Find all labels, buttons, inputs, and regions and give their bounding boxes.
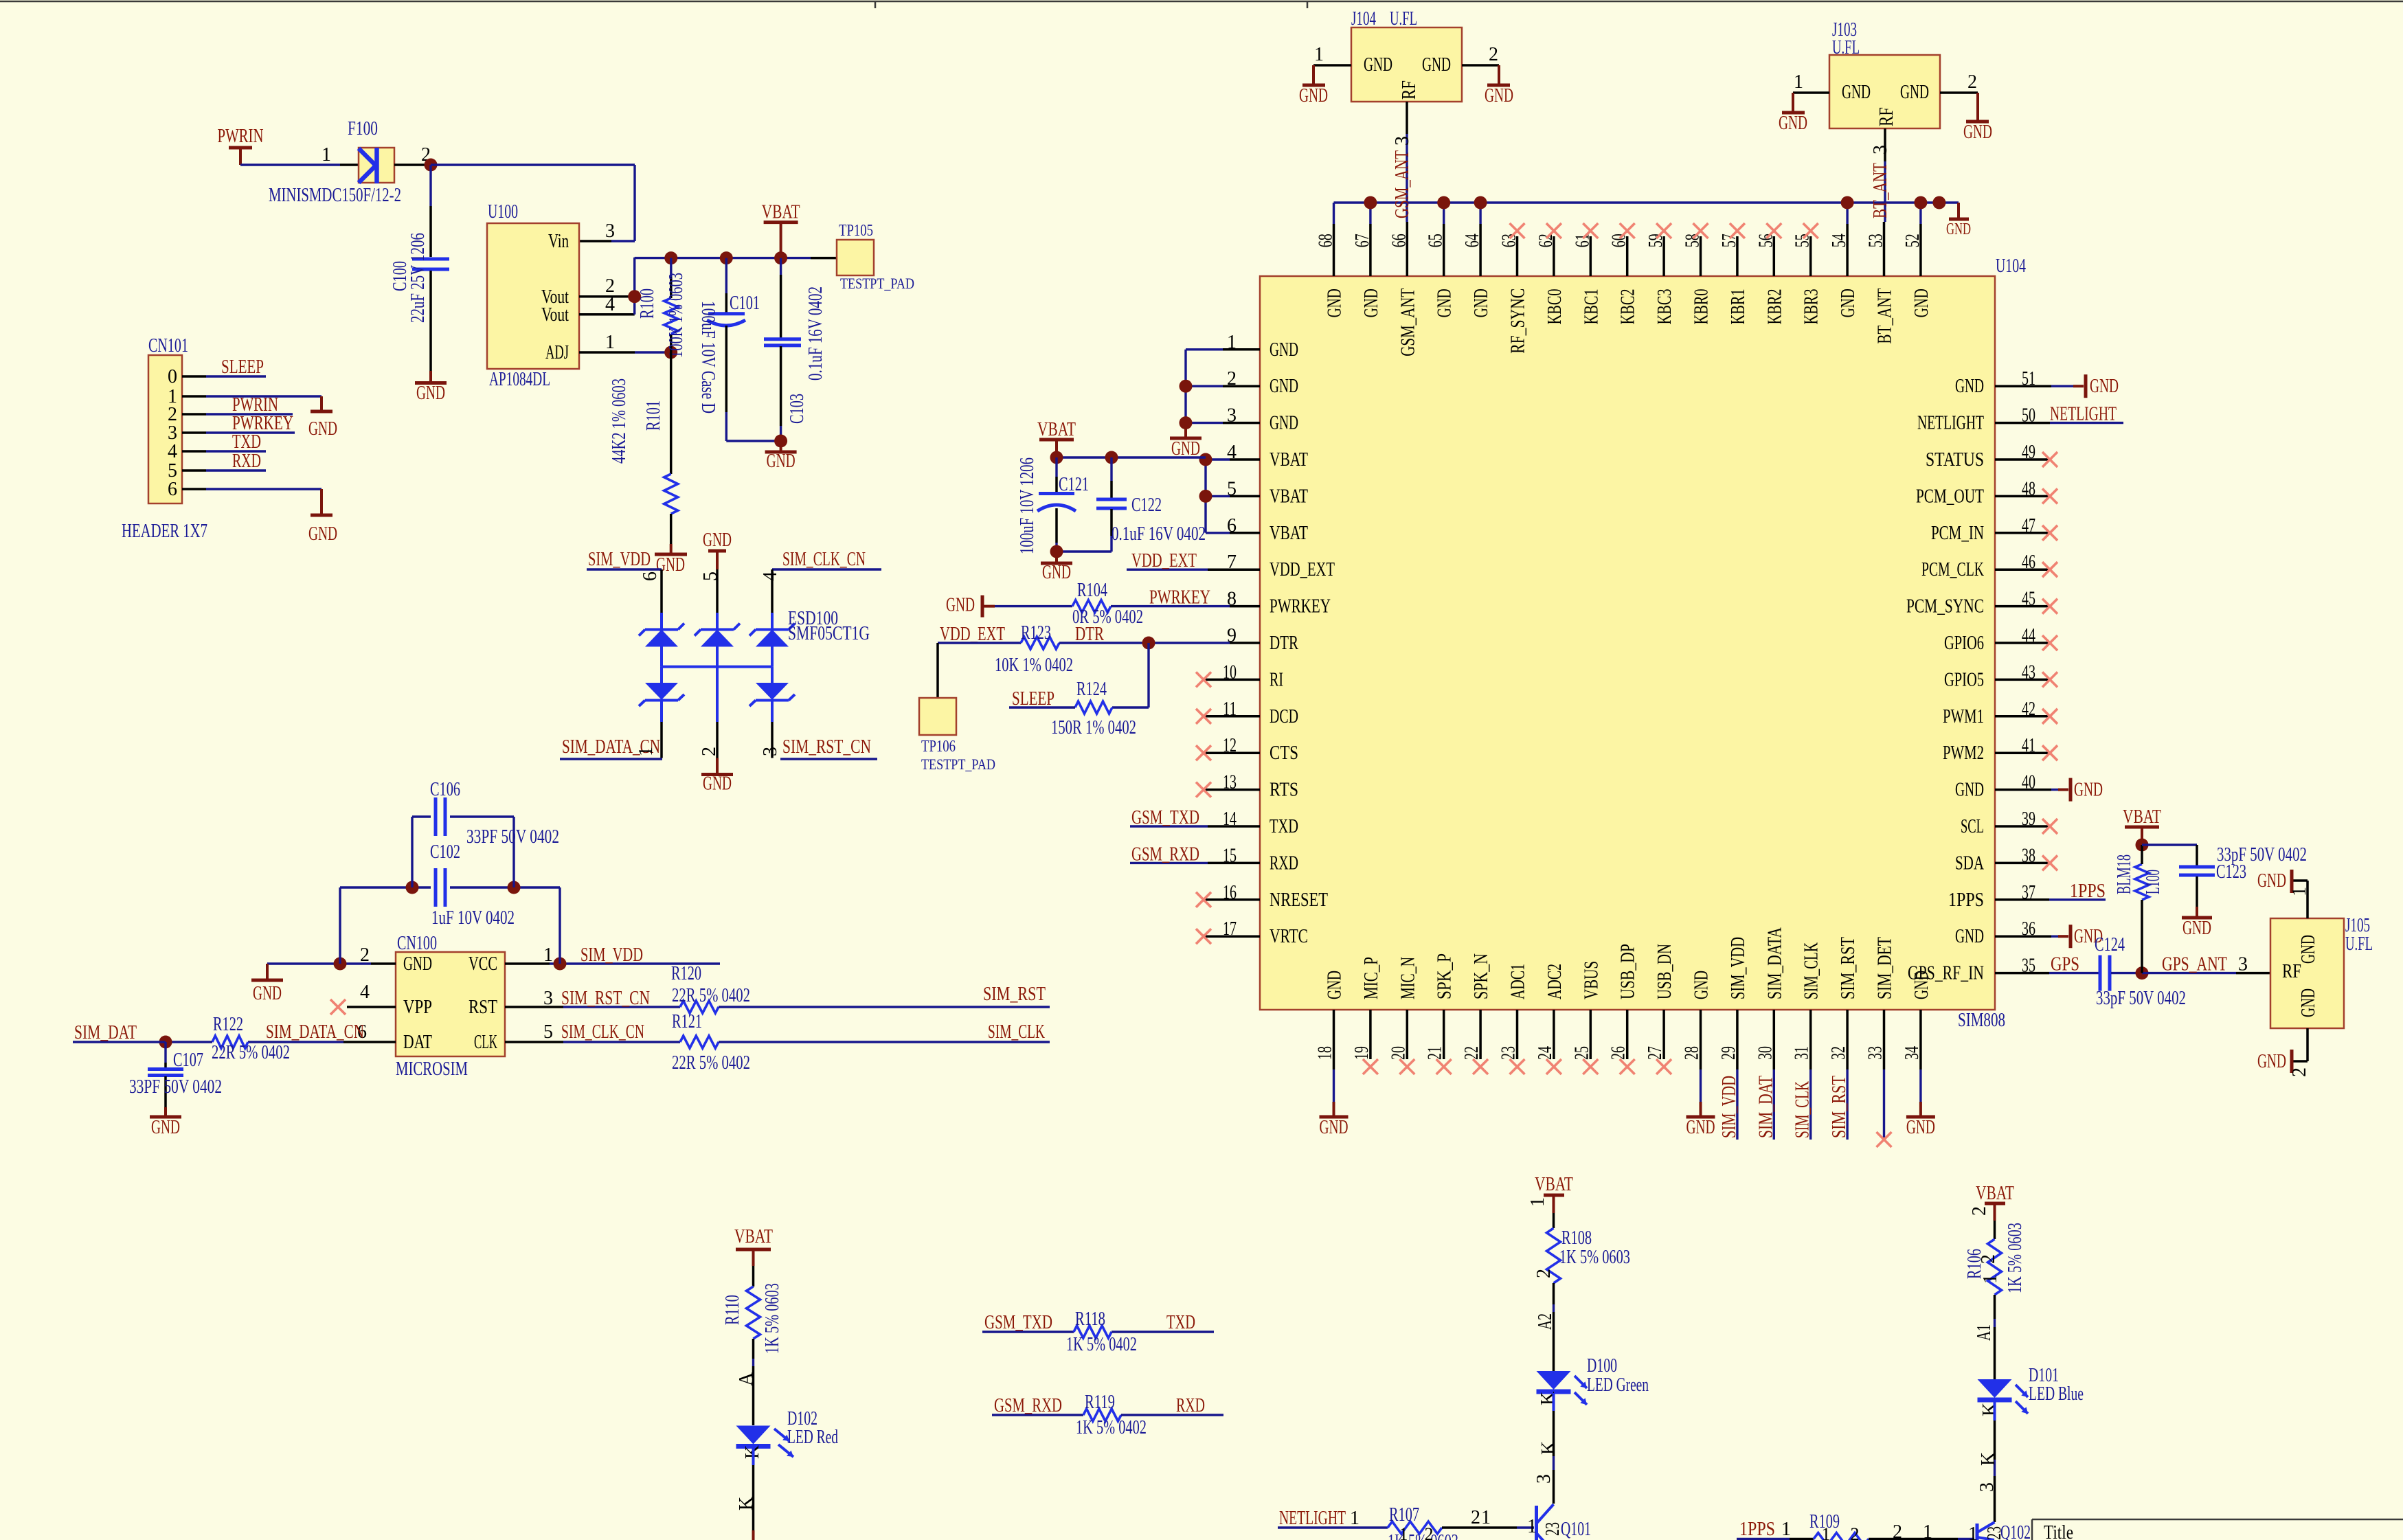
svg-text:2: 2 [1425, 1524, 1434, 1540]
svg-text:KBR1: KBR1 [1728, 288, 1749, 324]
svg-text:SPK_P: SPK_P [1434, 953, 1456, 999]
svg-text:PCM_IN: PCM_IN [1931, 523, 1984, 544]
svg-text:1: 1 [1980, 1274, 2001, 1284]
svg-text:GND: GND [703, 773, 732, 795]
svg-text:PWRKEY: PWRKEY [1149, 587, 1210, 609]
svg-text:SIM_RST: SIM_RST [1829, 1076, 1850, 1138]
svg-text:F100: F100 [348, 118, 378, 139]
svg-text:NETLIGHT: NETLIGHT [2050, 404, 2117, 425]
svg-text:MINISMDC150F/12-2: MINISMDC150F/12-2 [269, 185, 401, 206]
svg-text:44K2 1% 0603: 44K2 1% 0603 [609, 378, 630, 464]
svg-text:SIM_DAT: SIM_DAT [1755, 1076, 1776, 1138]
svg-text:GND: GND [1842, 82, 1871, 103]
svg-text:4: 4 [360, 982, 370, 1003]
svg-text:GND: GND [403, 953, 432, 975]
svg-text:1K 5% 0402: 1K 5% 0402 [1076, 1417, 1147, 1438]
svg-text:2: 2 [699, 747, 720, 756]
svg-text:GND: GND [1361, 288, 1382, 317]
svg-text:22R 5% 0402: 22R 5% 0402 [672, 1052, 750, 1074]
svg-text:TP106: TP106 [921, 738, 956, 756]
svg-text:SIM_RST_CN: SIM_RST_CN [561, 988, 650, 1009]
svg-text:GSM_ANT: GSM_ANT [1392, 150, 1413, 218]
svg-text:C106: C106 [430, 779, 460, 800]
svg-text:VBAT: VBAT [1270, 523, 1308, 544]
svg-text:SDA: SDA [1955, 852, 1985, 874]
svg-text:SIM_VDD: SIM_VDD [1719, 1076, 1740, 1138]
svg-text:2: 2 [1893, 1521, 1902, 1540]
svg-text:KBC3: KBC3 [1654, 288, 1676, 324]
svg-text:CTS: CTS [1270, 743, 1298, 764]
svg-text:GSM_RXD: GSM_RXD [994, 1395, 1062, 1416]
svg-text:0: 0 [168, 366, 177, 387]
svg-text:6: 6 [640, 571, 661, 581]
svg-text:4: 4 [168, 441, 177, 462]
svg-text:U104: U104 [1996, 256, 2026, 277]
svg-text:GND: GND [1779, 113, 1807, 134]
svg-text:K: K [1537, 1392, 1559, 1405]
svg-text:C122: C122 [1131, 495, 1162, 516]
svg-text:R120: R120 [671, 963, 701, 984]
svg-text:VBAT: VBAT [1976, 1183, 2014, 1204]
svg-text:1PPS: 1PPS [2070, 881, 2106, 902]
svg-text:HEADER 1X7: HEADER 1X7 [122, 521, 207, 542]
svg-text:RF: RF [1876, 107, 1897, 126]
svg-text:6: 6 [168, 479, 177, 500]
svg-text:U.FL: U.FL [1832, 37, 1860, 58]
svg-text:GND: GND [2257, 1051, 2286, 1072]
svg-text:KBC2: KBC2 [1618, 288, 1639, 324]
svg-text:TESTPT_PAD: TESTPT_PAD [840, 275, 914, 292]
svg-text:U.FL: U.FL [1390, 8, 1417, 30]
svg-text:R100: R100 [637, 288, 658, 319]
svg-text:Title: Title [2044, 1522, 2073, 1540]
svg-text:GND: GND [416, 383, 445, 404]
svg-text:PWRIN: PWRIN [218, 126, 264, 147]
svg-text:GND: GND [2182, 918, 2211, 939]
svg-text:VBAT: VBAT [2123, 806, 2161, 828]
svg-text:GND: GND [1691, 971, 1713, 999]
svg-text:SIM_DET: SIM_DET [1875, 937, 1896, 999]
svg-text:RI: RI [1270, 669, 1283, 690]
svg-text:SLEEP: SLEEP [221, 356, 264, 378]
svg-text:A2: A2 [1535, 1313, 1556, 1330]
svg-text:GND: GND [151, 1117, 180, 1138]
svg-text:USB_DN: USB_DN [1654, 944, 1676, 999]
svg-text:3: 3 [1870, 145, 1891, 155]
svg-text:100uF 10V 1206: 100uF 10V 1206 [1017, 457, 1038, 554]
svg-text:100uF 10V Case D: 100uF 10V Case D [697, 301, 719, 414]
svg-text:4: 4 [760, 571, 781, 581]
svg-text:2: 2 [1471, 1507, 1480, 1528]
svg-text:GND: GND [2090, 376, 2119, 397]
svg-text:Q101: Q101 [1561, 1519, 1591, 1540]
svg-text:PCM_OUT: PCM_OUT [1916, 486, 1984, 507]
svg-text:1PPS: 1PPS [1948, 890, 1984, 911]
svg-text:RXD: RXD [1270, 852, 1298, 874]
svg-text:1: 1 [2289, 887, 2310, 896]
svg-text:3: 3 [1392, 136, 1413, 146]
svg-text:PWRKEY: PWRKEY [1270, 596, 1331, 618]
svg-text:22R 5% 0402: 22R 5% 0402 [212, 1042, 290, 1063]
svg-text:1K 5% 0603: 1K 5% 0603 [762, 1283, 783, 1354]
svg-text:GND: GND [2298, 988, 2319, 1017]
svg-text:DTR: DTR [1270, 633, 1298, 654]
svg-text:D100: D100 [1587, 1355, 1617, 1377]
svg-text:GND: GND [946, 595, 975, 616]
svg-text:RF: RF [1399, 80, 1420, 100]
svg-text:NETLIGHT: NETLIGHT [1279, 1508, 1346, 1529]
svg-text:2: 2 [1969, 1206, 1990, 1216]
svg-text:SIM_VDD: SIM_VDD [588, 549, 651, 570]
svg-text:C102: C102 [430, 841, 460, 863]
svg-text:SIM_VDD: SIM_VDD [580, 944, 643, 966]
svg-text:KBR2: KBR2 [1764, 288, 1785, 324]
svg-text:1: 1 [1822, 1524, 1831, 1540]
svg-text:1: 1 [1350, 1508, 1360, 1529]
svg-text:1: 1 [1781, 1519, 1791, 1540]
svg-text:VDD_EXT: VDD_EXT [1270, 559, 1335, 580]
svg-text:LED Blue: LED Blue [2029, 1383, 2084, 1405]
svg-text:RXD: RXD [1176, 1395, 1205, 1416]
svg-text:SIM_RST_CN: SIM_RST_CN [782, 736, 871, 758]
svg-text:3: 3 [605, 220, 615, 242]
svg-text:ADC2: ADC2 [1544, 964, 1566, 999]
svg-text:BT_ANT: BT_ANT [1875, 288, 1896, 344]
svg-text:GND: GND [1324, 288, 1346, 317]
svg-text:GND: GND [1838, 288, 1859, 317]
svg-text:BLM18: BLM18 [2114, 854, 2135, 894]
svg-text:VBAT: VBAT [1535, 1174, 1573, 1195]
svg-text:RST: RST [469, 997, 497, 1018]
svg-text:SIM_CLK_CN: SIM_CLK_CN [561, 1021, 644, 1043]
svg-text:K: K [1979, 1403, 2000, 1416]
svg-text:VBAT: VBAT [1270, 486, 1308, 507]
svg-text:1: 1 [1794, 71, 1803, 93]
svg-text:SIM_RST: SIM_RST [983, 984, 1046, 1005]
svg-text:KBR0: KBR0 [1691, 288, 1713, 324]
svg-text:3: 3 [760, 747, 781, 756]
svg-text:150R 1% 0402: 150R 1% 0402 [1051, 717, 1136, 738]
svg-text:Q102: Q102 [2000, 1522, 2031, 1540]
svg-text:RTS: RTS [1270, 780, 1298, 801]
svg-text:GND: GND [1955, 780, 1984, 801]
svg-text:22uF 25V 1206: 22uF 25V 1206 [407, 233, 429, 323]
svg-text:AP1084DL: AP1084DL [489, 369, 550, 390]
svg-text:GND: GND [1471, 288, 1492, 317]
svg-text:C124: C124 [2095, 934, 2125, 955]
svg-text:KBC0: KBC0 [1544, 288, 1566, 324]
svg-text:A1: A1 [1974, 1324, 1995, 1341]
svg-text:CN100: CN100 [397, 933, 437, 954]
svg-text:SLEEP: SLEEP [1012, 688, 1054, 710]
svg-text:1K 5% 0603: 1K 5% 0603 [2005, 1223, 2026, 1293]
svg-text:GND: GND [1906, 1117, 1935, 1138]
svg-text:NRESET: NRESET [1270, 890, 1328, 911]
svg-text:SPK_N: SPK_N [1471, 953, 1492, 999]
svg-text:GND: GND [308, 523, 337, 545]
svg-text:Vin: Vin [548, 231, 569, 252]
svg-text:GND: GND [2074, 780, 2103, 801]
svg-text:TP105: TP105 [839, 222, 873, 240]
svg-text:GND: GND [1299, 85, 1328, 106]
svg-text:R107: R107 [1389, 1504, 1419, 1526]
svg-text:GND: GND [1963, 122, 1992, 143]
svg-text:SIM808: SIM808 [1958, 1010, 2005, 1031]
svg-text:MICROSIM: MICROSIM [396, 1058, 468, 1080]
svg-text:SIM_DATA: SIM_DATA [1764, 927, 1785, 999]
svg-text:GPS_ANT: GPS_ANT [2162, 954, 2227, 975]
svg-text:VBUS: VBUS [1581, 961, 1602, 999]
svg-text:PCM_CLK: PCM_CLK [1921, 559, 1984, 580]
svg-text:C121: C121 [1059, 474, 1089, 495]
svg-text:SIM_DAT: SIM_DAT [74, 1022, 137, 1043]
svg-text:0.1uF 16V 0402: 0.1uF 16V 0402 [805, 286, 826, 381]
svg-text:100K 1% 0603: 100K 1% 0603 [666, 273, 687, 358]
svg-text:GND: GND [1324, 971, 1346, 999]
svg-text:TESTPT_PAD: TESTPT_PAD [921, 756, 995, 773]
svg-text:R108: R108 [1561, 1227, 1592, 1249]
svg-text:GND: GND [1955, 926, 1984, 947]
svg-text:VCC: VCC [469, 953, 497, 975]
svg-text:1: 1 [1923, 1521, 1932, 1540]
svg-text:GND: GND [1270, 413, 1298, 434]
svg-text:U100: U100 [488, 201, 518, 223]
svg-text:GND: GND [308, 418, 337, 440]
svg-text:C103: C103 [787, 394, 808, 424]
svg-text:33pF 50V 0402: 33pF 50V 0402 [2096, 988, 2186, 1009]
svg-text:R110: R110 [722, 1295, 743, 1325]
svg-text:LED Red: LED Red [787, 1427, 838, 1448]
svg-text:DAT: DAT [403, 1032, 432, 1053]
svg-text:GND: GND [1270, 376, 1298, 397]
svg-text:GPIO6: GPIO6 [1944, 633, 1984, 654]
svg-text:GND: GND [703, 530, 732, 551]
svg-text:5: 5 [700, 571, 721, 581]
svg-text:R124: R124 [1076, 679, 1107, 700]
svg-text:2: 2 [1967, 71, 1977, 93]
svg-text:1: 1 [1314, 44, 1324, 65]
svg-text:GND: GND [1485, 85, 1513, 106]
svg-text:R122: R122 [213, 1014, 243, 1035]
svg-text:1: 1 [1399, 1524, 1408, 1540]
svg-text:1: 1 [1968, 1524, 1978, 1540]
svg-text:PWM1: PWM1 [1943, 706, 1984, 727]
svg-text:GND: GND [1911, 288, 1932, 317]
svg-text:TXD: TXD [232, 431, 261, 453]
svg-text:C101: C101 [730, 293, 760, 314]
svg-text:GSM_TXD: GSM_TXD [1131, 807, 1199, 828]
svg-text:GND: GND [1900, 82, 1929, 103]
svg-text:DCD: DCD [1270, 706, 1298, 727]
svg-text:GND: GND [1434, 288, 1456, 317]
svg-text:SIM_CLK: SIM_CLK [1792, 1081, 1814, 1138]
svg-text:GND: GND [1422, 54, 1451, 76]
svg-text:SMF05CT1G: SMF05CT1G [788, 623, 870, 644]
svg-text:ADC1: ADC1 [1508, 964, 1529, 999]
svg-text:0.1uF 16V 0402: 0.1uF 16V 0402 [1112, 523, 1206, 545]
svg-text:2: 2 [1851, 1524, 1860, 1540]
svg-text:TXD: TXD [1270, 816, 1298, 837]
svg-text:GND: GND [2257, 870, 2286, 892]
svg-text:GND: GND [1320, 1117, 1349, 1138]
svg-text:1K 5% 0402: 1K 5% 0402 [1066, 1334, 1137, 1355]
svg-text:VBAT: VBAT [734, 1226, 773, 1247]
svg-text:1K 5% 0603: 1K 5% 0603 [1388, 1531, 1458, 1540]
svg-text:1: 1 [635, 747, 657, 756]
svg-text:GPIO5: GPIO5 [1944, 669, 1984, 690]
svg-text:2: 2 [2289, 1067, 2310, 1077]
svg-text:SIM_DATA_CN: SIM_DATA_CN [266, 1021, 364, 1043]
svg-text:R123: R123 [1021, 622, 1051, 644]
svg-text:1: 1 [1527, 1197, 1548, 1207]
svg-text:SCL: SCL [1961, 816, 1984, 837]
svg-text:TXD: TXD [1166, 1312, 1195, 1333]
svg-text:CLK: CLK [474, 1032, 497, 1053]
svg-text:R119: R119 [1085, 1392, 1115, 1413]
svg-text:SIM_CLK: SIM_CLK [1801, 942, 1823, 999]
svg-text:VBAT: VBAT [1270, 449, 1308, 471]
svg-text:USB_DP: USB_DP [1618, 944, 1639, 999]
svg-text:MIC_P: MIC_P [1361, 957, 1382, 999]
svg-text:KBR3: KBR3 [1801, 288, 1823, 324]
svg-text:GSM_RXD: GSM_RXD [1131, 843, 1199, 865]
svg-text:KBC1: KBC1 [1581, 288, 1602, 324]
svg-text:R101: R101 [643, 400, 664, 431]
svg-text:2: 2 [1533, 1269, 1555, 1278]
svg-text:33PF 50V 0402: 33PF 50V 0402 [129, 1076, 222, 1098]
svg-text:1PPS: 1PPS [1739, 1519, 1775, 1540]
svg-text:PCM_SYNC: PCM_SYNC [1906, 596, 1984, 618]
svg-text:RXD: RXD [232, 451, 261, 472]
svg-text:R104: R104 [1077, 580, 1107, 601]
svg-text:U.FL: U.FL [2345, 933, 2373, 955]
svg-text:1: 1 [605, 332, 615, 353]
svg-text:R118: R118 [1075, 1309, 1105, 1330]
svg-text:A: A [736, 1372, 757, 1386]
svg-text:GND: GND [1364, 54, 1392, 76]
svg-text:1: 1 [1481, 1507, 1491, 1528]
svg-text:33PF 50V 0402: 33PF 50V 0402 [466, 826, 559, 848]
svg-text:GND: GND [1042, 562, 1071, 583]
svg-text:LED Green: LED Green [1587, 1374, 1649, 1396]
svg-text:STATUS: STATUS [1926, 449, 1984, 471]
svg-text:2: 2 [1489, 44, 1498, 65]
svg-text:GSM_TXD: GSM_TXD [984, 1312, 1052, 1333]
svg-text:1: 1 [321, 144, 331, 166]
svg-text:K: K [1978, 1452, 1999, 1466]
svg-text:Vout: Vout [541, 304, 569, 326]
svg-text:J104: J104 [1351, 8, 1376, 30]
svg-text:VBAT: VBAT [1037, 419, 1076, 440]
svg-text:VDD_EXT: VDD_EXT [1131, 550, 1197, 571]
svg-text:SIM_VDD: SIM_VDD [1728, 937, 1749, 999]
svg-text:GND: GND [1946, 220, 1971, 238]
svg-text:1K 5% 0603: 1K 5% 0603 [1559, 1247, 1630, 1268]
svg-text:SIM_CLK_CN: SIM_CLK_CN [782, 549, 866, 570]
svg-text:BT_ANT: BT_ANT [1870, 163, 1891, 218]
svg-text:GND: GND [253, 983, 282, 1004]
svg-text:GND: GND [1686, 1117, 1715, 1138]
svg-text:CN101: CN101 [148, 335, 188, 356]
svg-text:R121: R121 [672, 1011, 702, 1032]
svg-text:NETLIGHT: NETLIGHT [1917, 413, 1984, 434]
svg-text:GND: GND [1270, 339, 1298, 361]
svg-text:VPP: VPP [403, 997, 432, 1018]
svg-text:MIC_N: MIC_N [1397, 957, 1419, 999]
svg-text:SIM_CLK: SIM_CLK [988, 1021, 1045, 1043]
svg-text:2: 2 [1978, 1254, 1999, 1264]
svg-text:DTR: DTR [1075, 624, 1104, 645]
svg-text:GPS_RF_IN: GPS_RF_IN [1908, 963, 1984, 984]
svg-text:1: 1 [1527, 1516, 1537, 1537]
svg-text:1uF 10V 0402: 1uF 10V 0402 [431, 907, 515, 929]
svg-text:VBAT: VBAT [762, 202, 800, 223]
svg-text:GND: GND [767, 451, 796, 472]
svg-text:PWM2: PWM2 [1943, 743, 1984, 764]
svg-text:GND: GND [1955, 376, 1984, 397]
svg-text:ADJ: ADJ [545, 342, 569, 363]
svg-text:C107: C107 [173, 1050, 203, 1071]
svg-text:RF_SYNC: RF_SYNC [1508, 288, 1529, 354]
svg-text:3: 3 [1533, 1474, 1555, 1484]
svg-text:C123: C123 [2216, 861, 2246, 883]
svg-text:GND: GND [2298, 935, 2319, 964]
svg-text:K: K [1538, 1441, 1559, 1455]
svg-text:22R 5% 0402: 22R 5% 0402 [672, 985, 750, 1006]
svg-text:L100: L100 [2143, 870, 2164, 894]
svg-text:SIM_RST: SIM_RST [1838, 937, 1859, 999]
svg-text:5: 5 [543, 1021, 553, 1043]
svg-text:VRTC: VRTC [1270, 926, 1308, 947]
svg-text:GSM_ANT: GSM_ANT [1397, 288, 1419, 356]
svg-text:10K 1% 0402: 10K 1% 0402 [995, 655, 1073, 676]
svg-text:3: 3 [1976, 1482, 1998, 1492]
